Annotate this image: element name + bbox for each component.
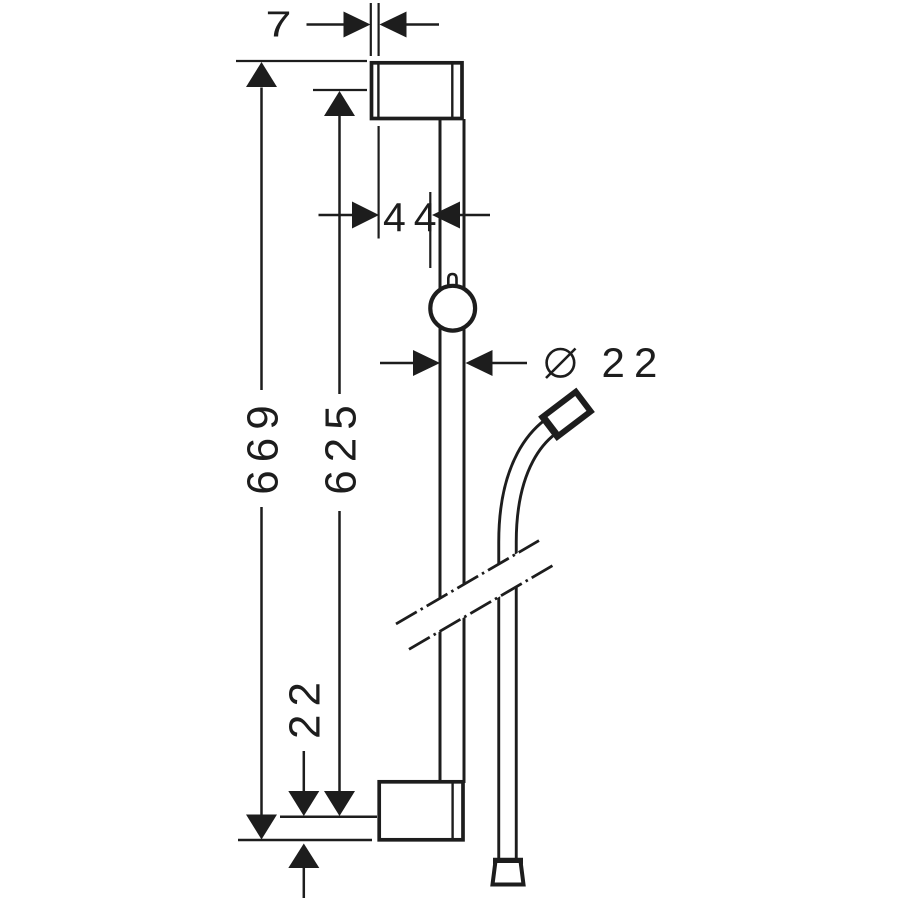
dim 44 leader line left [319, 214, 354, 217]
hose break-out white band [396, 541, 554, 650]
shower hose outer contour [508, 427, 551, 859]
dim 625 line upper segment [338, 116, 341, 394]
dim 669 reference line top [236, 60, 367, 62]
dim diameter-22 arrow right [466, 350, 493, 376]
dim 44 extension line left [378, 126, 380, 239]
dim 625 arrow down [324, 791, 355, 816]
svg-text:625: 625 [317, 397, 366, 494]
dim 22 line upper segment [303, 751, 306, 791]
bottom wall bracket body [379, 782, 463, 840]
dim 669 line lower segment [260, 507, 263, 815]
break line upper (dash-dot) [396, 541, 539, 624]
dim 7 arrow right [380, 12, 407, 38]
top wall bracket inner right line [451, 63, 453, 118]
dim 44 extension line right [429, 192, 431, 268]
dim 22 arrow down [288, 791, 319, 816]
shower hose inner white core [508, 427, 551, 859]
dim 22 line lower tail [303, 868, 306, 898]
wall bar tube right edge [463, 119, 466, 783]
dim 7 extension line left [370, 3, 372, 56]
wall bar tube left edge [439, 119, 442, 783]
dim 7 extension line right [378, 3, 380, 56]
svg-text:22: 22 [281, 674, 330, 739]
dim 7 arrow left [344, 12, 371, 38]
slider knob circle [430, 286, 475, 331]
dim 625 reference line top [313, 89, 367, 91]
svg-text:44: 44 [383, 195, 444, 241]
hose end collar bar [493, 858, 523, 865]
dim 22 arrow up [288, 844, 319, 869]
dim diameter-22 leader line right [492, 362, 528, 365]
dim 625 reference line bottom [280, 816, 377, 819]
dim 669 reference line bottom [238, 839, 372, 842]
dim 44 arrow right [432, 202, 460, 229]
diameter symbol slash [546, 349, 576, 379]
hose end conical fitting [493, 861, 524, 885]
dim 7 leader line right [405, 23, 439, 26]
dim 44 leader line right [459, 214, 490, 217]
dim 669 line upper segment [260, 88, 263, 391]
svg-text:7: 7 [266, 3, 292, 44]
dim 669 arrow down [246, 815, 277, 840]
dim 669 arrow up [246, 62, 277, 87]
dim diameter-22 leader line left [380, 362, 414, 365]
dim 7 leader line left [307, 23, 346, 26]
bottom wall bracket inner right line [451, 782, 453, 839]
slider pin tab [448, 274, 456, 292]
diameter symbol circle [547, 349, 575, 377]
hose conical nut [542, 392, 591, 437]
break line lower (dash-dot) [409, 565, 554, 650]
svg-text:669: 669 [239, 397, 288, 494]
top wall bracket inner left line [377, 63, 379, 118]
svg-text:22: 22 [602, 339, 667, 386]
dim 625 line lower segment [338, 511, 341, 792]
top wall bracket body [372, 63, 463, 119]
dim 44 arrow left [352, 202, 379, 229]
dim 625 arrow up [324, 91, 355, 116]
dim diameter-22 arrow left [413, 350, 440, 376]
